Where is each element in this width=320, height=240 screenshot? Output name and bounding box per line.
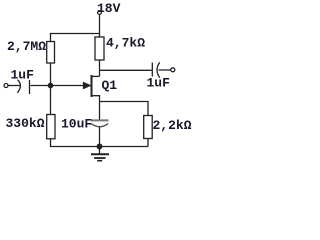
capacitor C3 10uF top plate (91, 119, 109, 121)
svg-text:1uF: 1uF (11, 68, 35, 83)
svg-text:Q1: Q1 (102, 78, 118, 93)
wire 18V down to R2 top (99, 14, 101, 37)
ground bar 1 (91, 153, 109, 155)
wire top rail (51, 34, 100, 42)
transistor Q1 collector lead (92, 75, 100, 77)
wire R3 bottom to ground rail (51, 139, 149, 147)
ground stem (99, 147, 101, 154)
resistor R4 2,2k box (144, 116, 153, 139)
node output terminal (171, 68, 175, 72)
wire R2 bottom to collector (99, 60, 101, 76)
ground bar 2 (94, 157, 106, 159)
svg-text:330kΩ: 330kΩ (6, 116, 45, 131)
svg-text:10uF: 10uF (61, 116, 92, 131)
wire emitter rail to R4 (100, 102, 149, 116)
node input terminal (4, 84, 8, 88)
transistor Q1 emitter lead (92, 96, 100, 120)
wire C3 bottom to ground rail (99, 127, 101, 147)
resistor R1 2,7M box (47, 42, 55, 64)
capacitor C1 1uF input straight plate (29, 80, 31, 94)
capacitor C1 1uF input curved plate (17, 80, 20, 93)
wire R4 bottom to ground rail (147, 139, 149, 147)
capacitor C2 1uF output curved plate (157, 62, 160, 77)
resistor R2 4,7k box (95, 37, 104, 60)
capacitor C2 1uF output straight plate (151, 63, 153, 77)
svg-text:2,2kΩ: 2,2kΩ (153, 118, 192, 133)
resistor R3 330k box (47, 115, 55, 139)
wire input terminal to C1 (8, 85, 20, 87)
wire collector branch to output cap (100, 69, 152, 71)
wire base (31, 85, 85, 87)
wire R1 bottom to R3 top (base node vertical) (50, 63, 52, 115)
svg-text:4,7kΩ: 4,7kΩ (106, 36, 145, 51)
svg-text:1uF: 1uF (147, 76, 171, 91)
node ground junction dot (97, 144, 102, 149)
node base junction dot (48, 83, 52, 87)
ground bar 3 (97, 160, 102, 162)
transistor Q1 base bar (91, 75, 93, 97)
svg-text:18V: 18V (97, 1, 121, 16)
capacitor C3 10uF curved bottom plate (91, 124, 108, 127)
node 18V terminal (98, 11, 102, 15)
svg-text:2,7MΩ: 2,7MΩ (7, 39, 46, 54)
wire output cap to terminal (159, 69, 171, 71)
transistor Q1 arrow (84, 83, 91, 89)
